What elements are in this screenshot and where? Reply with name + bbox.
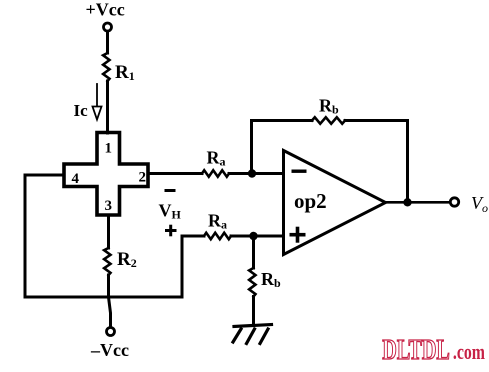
current arrow Ic (93, 84, 102, 120)
wire riser to noninverting path (182, 236, 204, 297)
wire pin 3 to R2 (107, 215, 110, 248)
output terminal (450, 198, 458, 206)
wire R2 to rail (107, 275, 110, 297)
resistor Rb feedback (312, 117, 345, 123)
resistor Ra bottom (204, 233, 231, 239)
resistor Rb bottom (249, 268, 255, 297)
svg-text:Ic: Ic (74, 101, 89, 120)
svg-text:op2: op2 (294, 189, 327, 213)
wire Ra to noninverting input (231, 235, 284, 238)
wire +Vcc to R1 (106, 32, 109, 54)
DLTDL.com logo (382, 335, 485, 366)
svg-text:–Vcc: –Vcc (90, 340, 129, 360)
svg-text:+Vcc: +Vcc (86, 0, 125, 20)
op-amp op2 triangle (284, 151, 386, 255)
plus sign below VH (165, 225, 177, 237)
op-amp plus input sign (290, 227, 306, 243)
-Vcc terminal (107, 328, 115, 336)
resistor R1 (103, 53, 109, 81)
wire junction to Rb bottom (252, 236, 255, 268)
svg-text:2: 2 (139, 170, 147, 186)
wire Ra to inverting input (229, 172, 284, 175)
minus sign above VH (165, 189, 176, 192)
resistor R2 (104, 248, 110, 275)
junction dot output (403, 198, 411, 206)
wire Rb to ground (252, 297, 255, 326)
junction dot noninverting input (249, 232, 257, 240)
wire rail to -Vcc terminal (109, 297, 111, 327)
op-amp minus input sign (292, 170, 307, 173)
Hall element cross (64, 133, 148, 216)
wire pin 2 to Ra (148, 172, 202, 175)
wire R1 to Hall element pin 1 (106, 81, 109, 133)
svg-text:DLTDL: DLTDL (382, 335, 450, 366)
svg-text:1: 1 (105, 141, 113, 157)
svg-text:3: 3 (105, 198, 113, 214)
resistor Ra top (202, 170, 229, 176)
feedback wire up and over (252, 121, 313, 174)
junction dot inverting input (248, 169, 256, 177)
output wire (386, 201, 451, 204)
feedback wire down to output (345, 121, 408, 203)
svg-text:.com: .com (453, 341, 485, 365)
wire pin 4 to left rail (25, 175, 64, 297)
svg-text:4: 4 (72, 171, 80, 187)
ground (233, 325, 272, 344)
bottom rail wire (25, 296, 182, 299)
+Vcc terminal (104, 23, 112, 31)
